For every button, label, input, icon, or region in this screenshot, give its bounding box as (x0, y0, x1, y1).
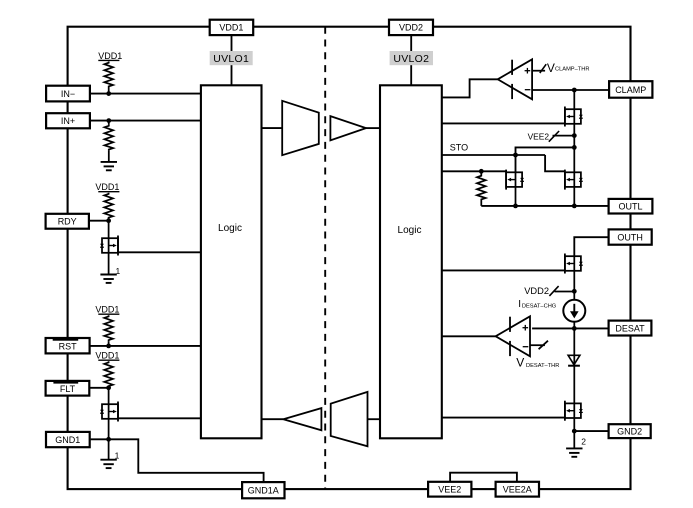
transistor Q-FLT (open-drain pulldown) (100, 402, 118, 422)
wire Q-OUTL-B source (573, 187, 575, 206)
pin CLAMP (609, 81, 652, 98)
transistor Q-OUTH (565, 254, 583, 274)
svg-text:VDD2: VDD2 (524, 286, 549, 296)
wire Q-OUTH gate to Logic2 (442, 269, 565, 271)
net VDESAT-THR tick (539, 341, 548, 350)
block UVLO2 (390, 51, 433, 65)
svg-text:VEE2: VEE2 (528, 132, 550, 142)
svg-text:FLT: FLT (60, 384, 76, 394)
wire resistor bottom to OUTL rail (480, 201, 482, 206)
svg-text:GND1: GND1 (55, 435, 80, 445)
svg-text:OUTH: OUTH (617, 232, 643, 242)
net VEE2 tick (549, 131, 559, 142)
pin IN+ (46, 113, 90, 128)
wire Q-OUTL-A source (515, 187, 517, 206)
wire IN+ node to resistor (108, 121, 110, 125)
wire STO from Logic2 (442, 154, 545, 156)
svg-text:DESAT–CHG: DESAT–CHG (522, 304, 556, 310)
wire STO to Q-OUTL-B gate (545, 155, 565, 171)
wire FLT node to Q-FLT drain (108, 388, 110, 404)
junction STO (513, 153, 518, 158)
junction VDD2 (572, 289, 577, 294)
svg-text:V: V (547, 61, 555, 75)
IC package boundary (68, 27, 631, 489)
wire OUTL rail (481, 205, 608, 207)
junction resistor top (479, 169, 484, 174)
svg-text:GND2: GND2 (617, 427, 642, 437)
svg-text:Logic: Logic (398, 225, 422, 236)
node C: VDD1 pullup on RST (95, 305, 119, 315)
wire RST to Logic1 (90, 345, 201, 347)
wire clamp comparator output to Logic2 (442, 79, 498, 97)
junction GND2 (572, 429, 577, 434)
wire VDD1 box to UVLO1 to Logic1 (231, 35, 233, 85)
pin GND1 (46, 432, 90, 447)
transistor Q-CLAMP (565, 107, 583, 127)
svg-text:RDY: RDY (58, 217, 77, 227)
wire comparator output to Logic2 (442, 335, 496, 337)
pin DESAT (609, 321, 652, 336)
svg-text:STO: STO (450, 143, 468, 153)
wire Logic2 to TX buffer 2 (368, 418, 380, 420)
wire IN+ to Logic1 (90, 120, 201, 122)
pin IN- (46, 86, 90, 102)
wire Q-FLT gate to Logic1 (118, 417, 201, 419)
svg-text:VEE2: VEE2 (438, 485, 461, 495)
wire Q-RDY source to ground (108, 253, 110, 275)
junction OUTL B (572, 204, 577, 209)
wire RDY to pullup node (89, 220, 109, 222)
block UVLO1 (210, 51, 253, 65)
pin VDD1 (210, 20, 254, 35)
block Logic1 (201, 85, 262, 438)
junction STO top (572, 145, 577, 150)
wire Q-GND2 gate to Logic2 (442, 417, 565, 419)
pin OUTH (609, 229, 652, 244)
svg-text:DESAT–THR: DESAT–THR (526, 363, 559, 369)
svg-text:UVLO2: UVLO2 (393, 53, 429, 65)
node D: VDD1 pullup on FLT (95, 351, 119, 361)
svg-text:2: 2 (581, 437, 586, 447)
wire resistor to ground (108, 151, 110, 162)
pin OUTL (609, 199, 653, 214)
svg-text:IN−: IN− (61, 89, 75, 99)
pin GND1A (242, 482, 284, 498)
junction IN- (106, 91, 111, 96)
net VDD2 tick (549, 286, 558, 296)
junction OUTL A (513, 204, 518, 209)
svg-text:IN+: IN+ (61, 116, 75, 126)
wire resistor to RDY node (108, 219, 110, 221)
wire RDY node to Q-RDY drain (108, 221, 110, 239)
wire VDD2 stub (555, 291, 575, 293)
diode D-DESAT (blanking diode) (568, 355, 580, 365)
svg-text:DESAT: DESAT (615, 323, 645, 333)
wire resistor to IN- node (108, 88, 110, 94)
svg-text:I: I (518, 299, 521, 310)
wire OUTH to Q-OUTH drain (574, 237, 608, 256)
svg-text:GND1A: GND1A (248, 486, 279, 496)
ground (GND2), pin 2 (566, 448, 582, 456)
ground (IN+ pulldown) (101, 162, 117, 170)
resistor R-OUTL (477, 175, 486, 201)
block Logic2 (380, 85, 442, 438)
buffer RX2 (receive triangle, pointing left) (283, 408, 321, 430)
label I DESAT-CHG (518, 299, 556, 310)
svg-text:CLAMP–THR: CLAMP–THR (555, 67, 589, 73)
wire from source junction to left (516, 147, 575, 172)
junction IN+ (106, 118, 111, 123)
pin VEE2A (496, 482, 539, 497)
wire CLAMP node to Q-CLAMP drain (573, 90, 575, 109)
svg-text:VDD2: VDD2 (399, 23, 423, 33)
wire - input stub (530, 344, 545, 346)
junction CLAMP (572, 88, 577, 93)
svg-text:VDD1: VDD1 (95, 351, 119, 361)
resistor R-IN- pull-up (104, 62, 113, 88)
wire RX2 to Logic1 (262, 418, 284, 420)
junction VEE2 (572, 133, 577, 138)
svg-text:VEE2A: VEE2A (503, 485, 532, 495)
transistor Q-RDY (open-drain pulldown) (100, 236, 118, 256)
wire current source to DESAT node (573, 322, 575, 329)
wire Logic2 to Q-OUTL-A gate (442, 170, 506, 172)
resistor R-IN+ pull-down (105, 125, 114, 151)
wire + input to VCLAMP-THR (532, 70, 545, 72)
wire VDD2 box to UVLO2 to Logic2 (410, 35, 412, 85)
wire GND1 routing to GND1A (91, 439, 264, 482)
svg-text:VDD1: VDD1 (95, 182, 119, 192)
label V CLAMP-THR (547, 61, 590, 75)
junction DESAT (572, 326, 577, 331)
junction FLT (106, 385, 111, 390)
buffer TX2 (transmit trapezoid, pointing left) (331, 392, 368, 446)
wire Q-CLAMP source down (573, 124, 575, 173)
wire VEE2 stub (553, 135, 575, 137)
resistor R-FLT pull-up (104, 361, 113, 387)
wire DESAT line (532, 327, 609, 329)
wire Q-CLAMP gate to Logic2 (442, 122, 565, 124)
wire IN- to Logic1 (90, 93, 201, 95)
wire diode to Q-GND2 drain (573, 366, 575, 404)
op-amp U-DESAT comparator (496, 316, 530, 356)
isolation barrier (dashed) (324, 27, 326, 489)
wire FLT to pullup node (90, 387, 109, 389)
op-amp U-CLAMP comparator (498, 59, 532, 99)
wire Q-RDY gate to Logic1 (118, 251, 201, 253)
wire Logic1 to TX buffer 1 (262, 127, 282, 129)
transistor Q-OUTL-B (565, 170, 583, 190)
current source I-DESAT (circle with arrow) (563, 300, 585, 322)
wire RX1 to Logic2 (366, 127, 380, 129)
svg-text:1: 1 (116, 266, 121, 276)
pin VDD2 (389, 20, 433, 35)
pin RDY (46, 214, 89, 229)
buffer TX1 (transmit trapezoid) (282, 101, 319, 155)
svg-text:OUTL: OUTL (618, 202, 642, 212)
wire Q-GND2 source to GND2 node (573, 418, 575, 448)
node B: VDD1 pullup on RDY (95, 182, 119, 192)
buffer RX1 (receive triangle) (330, 116, 366, 140)
pin VEE2 (428, 482, 471, 497)
wire - input / CLAMP line (532, 89, 609, 91)
resistor R-RST pull-up (104, 315, 113, 341)
label V DESAT-THR (516, 356, 559, 370)
svg-text:UVLO1: UVLO1 (213, 53, 249, 65)
wire DESAT node to diode (573, 328, 575, 365)
svg-text:V: V (516, 356, 524, 370)
wire VEE2 to VEE2A strap (450, 473, 517, 482)
transistor Q-GND2 (pulldown) (565, 401, 583, 421)
svg-text:VDD1: VDD1 (219, 23, 243, 33)
svg-text:Logic: Logic (218, 223, 242, 234)
svg-text:1: 1 (115, 451, 120, 461)
junction RST (106, 344, 111, 349)
svg-text:RST: RST (59, 341, 78, 351)
node A: VDD1 pullup on IN- (98, 51, 122, 61)
wire Q-OUTH source to current source (573, 271, 575, 300)
svg-text:CLAMP: CLAMP (615, 85, 646, 95)
wire Q-FLT source through GND1 node to ground (108, 419, 110, 460)
wire GND2 node to GND2 pin (574, 430, 608, 432)
svg-text:VDD1: VDD1 (95, 305, 119, 315)
resistor R-RDY pull-up (104, 193, 113, 219)
net VCLAMP-THR tick (540, 64, 546, 73)
junction GND1 (106, 437, 111, 442)
junction RDY (106, 218, 111, 223)
pin FLT (active low) (46, 381, 90, 396)
ground (Q-RDY source), pin 1 (100, 275, 116, 283)
wire junction to resistor (480, 171, 482, 174)
transistor Q-OUTL-A (506, 170, 524, 190)
svg-text:VDD1: VDD1 (98, 51, 122, 61)
wire resistor to RST node (108, 341, 110, 346)
pin RST (active low) (46, 338, 90, 353)
ground (GND1), pin 1 (100, 460, 116, 468)
pin GND2 (609, 424, 651, 438)
